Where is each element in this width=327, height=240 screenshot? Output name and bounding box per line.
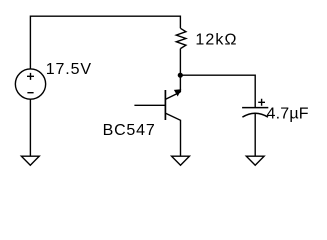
- svg-text:12kΩ: 12kΩ: [195, 31, 237, 48]
- svg-text:BC547: BC547: [103, 122, 156, 139]
- svg-text:17.5V: 17.5V: [46, 61, 92, 78]
- svg-text:4.7µF: 4.7µF: [267, 106, 309, 123]
